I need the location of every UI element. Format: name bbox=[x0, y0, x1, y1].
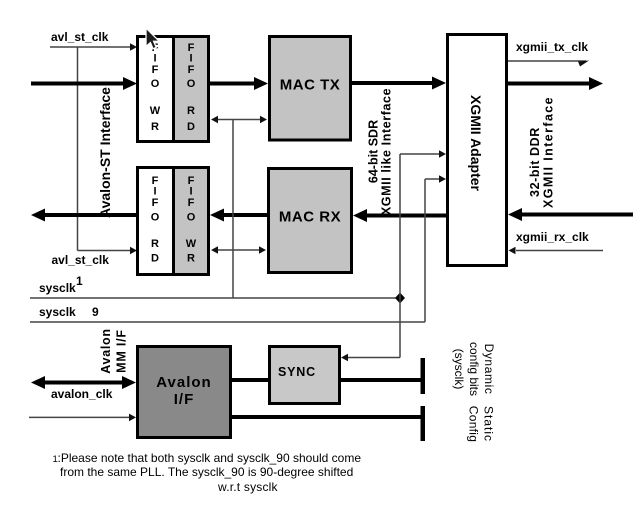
svg-text:I: I bbox=[189, 53, 192, 65]
wire sysclk horizontal bbox=[30, 297, 400, 299]
wire sysclk vertical riser x400 bbox=[399, 154, 401, 358]
svg-text:XGMII Interface: XGMII Interface bbox=[542, 96, 556, 208]
Avalon I/F block bbox=[138, 347, 231, 438]
footnote line 1 bbox=[53, 451, 362, 465]
svg-text:xgmii_rx_clk: xgmii_rx_clk bbox=[516, 230, 589, 244]
svg-text:avalon_clk: avalon_clk bbox=[51, 387, 113, 401]
double arrow FIFO WR / MAC RX bbox=[211, 246, 266, 254]
thick arrow XGMII Adapter to MAC RX bbox=[353, 209, 446, 222]
svg-text:(sysclk): (sysclk) bbox=[452, 349, 466, 390]
thick arrow avalon-st data in to FIFO WR bbox=[31, 77, 137, 90]
thick arrow avalon-st data out from FIFO RD bbox=[31, 209, 137, 222]
svg-text:R: R bbox=[151, 121, 159, 133]
svg-text:W: W bbox=[186, 238, 197, 250]
thick wire SYNC to dynamic terminal bbox=[341, 378, 421, 382]
thick wire Avalon to SYNC bbox=[232, 378, 268, 382]
FIFO RD block (top, gray) bbox=[174, 37, 209, 142]
wire xgmii_rx_clk bbox=[509, 247, 604, 255]
svg-text:I: I bbox=[189, 186, 192, 198]
terminal bar dynamic bbox=[421, 358, 426, 394]
FIFO WR block (top, white) bbox=[138, 37, 174, 142]
wire into avalon bottom bbox=[29, 414, 136, 422]
svg-text::Please note that both sysclk: :Please note that both sysclk and sysclk… bbox=[58, 451, 362, 465]
svg-text:R: R bbox=[187, 253, 195, 265]
svg-text:O: O bbox=[151, 78, 160, 90]
svg-text:9: 9 bbox=[92, 305, 99, 319]
svg-text:F: F bbox=[188, 64, 195, 76]
wire clock vertical between FIFO and MAC bbox=[232, 120, 234, 299]
label sysclk with superscript 1 bbox=[39, 274, 83, 295]
thick arrow FIFO RD to MAC TX bbox=[210, 77, 268, 90]
label Static Config (rotated cw) bbox=[467, 406, 496, 443]
svg-text:MAC TX: MAC TX bbox=[280, 77, 341, 94]
svg-text:Static: Static bbox=[482, 406, 496, 442]
svg-text:MAC RX: MAC RX bbox=[279, 209, 341, 226]
thick arrow MAC TX to XGMII Adapter bbox=[352, 77, 446, 90]
svg-text:Avalon-ST Interface: Avalon-ST Interface bbox=[97, 87, 113, 218]
svg-text:F: F bbox=[152, 64, 159, 76]
wire xgmii_tx_clk bbox=[508, 61, 589, 67]
svg-text:I/F: I/F bbox=[174, 391, 195, 408]
svg-text:O: O bbox=[151, 212, 160, 224]
svg-text:O: O bbox=[187, 212, 196, 224]
svg-text:1: 1 bbox=[76, 274, 83, 288]
junction diamond on sysclk bbox=[395, 293, 405, 304]
svg-text:F: F bbox=[188, 197, 195, 209]
svg-text:config bits: config bits bbox=[467, 342, 481, 396]
terminal bar static bbox=[421, 406, 426, 441]
svg-text:64-bit SDR: 64-bit SDR bbox=[367, 120, 381, 183]
thick wire Avalon to static terminal bbox=[232, 415, 421, 419]
svg-text:w.r.t sysclk: w.r.t sysclk bbox=[217, 480, 279, 494]
svg-text:Dynamic: Dynamic bbox=[482, 344, 496, 395]
svg-text:I: I bbox=[153, 186, 156, 198]
thick arrow MAC RX to FIFO WR bbox=[210, 209, 267, 222]
svg-text:SYNC: SYNC bbox=[278, 365, 316, 379]
svg-text:Avalon: Avalon bbox=[99, 328, 113, 373]
svg-text:avl_st_clk: avl_st_clk bbox=[51, 30, 109, 44]
wire avl_st_clk top horizontal bbox=[50, 43, 137, 51]
svg-text:Avalon: Avalon bbox=[156, 374, 211, 391]
svg-text:sysclk: sysclk bbox=[39, 281, 76, 295]
wire sysclk_90 vertical riser x425 bbox=[424, 179, 426, 322]
wire avl_st_clk vertical branch bbox=[77, 47, 79, 251]
svg-text:W: W bbox=[150, 105, 161, 117]
mouse cursor bbox=[146, 28, 159, 49]
svg-text:D: D bbox=[187, 121, 195, 133]
thick double arrow avalon mm bbox=[31, 376, 136, 389]
svg-text:from the same PLL. The sysclk_: from the same PLL. The sysclk_90 is 90-d… bbox=[60, 465, 353, 479]
svg-text:avl_st_clk: avl_st_clk bbox=[52, 253, 110, 267]
MAC RX block bbox=[269, 169, 352, 273]
double arrow FIFO RD / MAC TX bbox=[211, 116, 267, 124]
svg-text:sysclk: sysclk bbox=[39, 305, 76, 319]
MAC TX block bbox=[270, 37, 351, 141]
thick arrow xgmii rx in to adapter bbox=[508, 208, 633, 221]
wire sysclk down to SYNC bbox=[341, 354, 400, 362]
wire sysclk to adapter bbox=[400, 150, 446, 158]
wire avl_st_clk bottom horizontal bbox=[78, 247, 138, 255]
FIFO WR block (bottom, gray) bbox=[174, 168, 209, 275]
svg-text:xgmii_tx_clk: xgmii_tx_clk bbox=[516, 40, 588, 54]
svg-text:MM I/F: MM I/F bbox=[115, 329, 129, 373]
thick arrow adapter xgmii tx out bbox=[508, 77, 603, 90]
wire sysclk_90 to adapter bbox=[425, 175, 446, 183]
svg-text:O: O bbox=[187, 78, 196, 90]
SYNC block bbox=[270, 347, 340, 404]
wire sysclk_90 horizontal bbox=[30, 321, 425, 323]
svg-text:I: I bbox=[153, 53, 156, 65]
svg-text:D: D bbox=[151, 253, 159, 265]
svg-text:XGMII Adapter: XGMII Adapter bbox=[468, 95, 484, 191]
svg-text:32-bit DDR: 32-bit DDR bbox=[528, 127, 542, 197]
XGMII Adapter block bbox=[448, 35, 507, 266]
svg-text:R: R bbox=[151, 238, 159, 250]
FIFO RD block (bottom, white) bbox=[138, 168, 174, 275]
svg-text:F: F bbox=[152, 197, 159, 209]
svg-text:Config: Config bbox=[467, 406, 481, 443]
svg-text:R: R bbox=[187, 105, 195, 117]
label Dynamic config bits (sysclk) (rotated cw) bbox=[452, 342, 496, 396]
svg-text:XGMII like Interface: XGMII like Interface bbox=[380, 88, 394, 215]
